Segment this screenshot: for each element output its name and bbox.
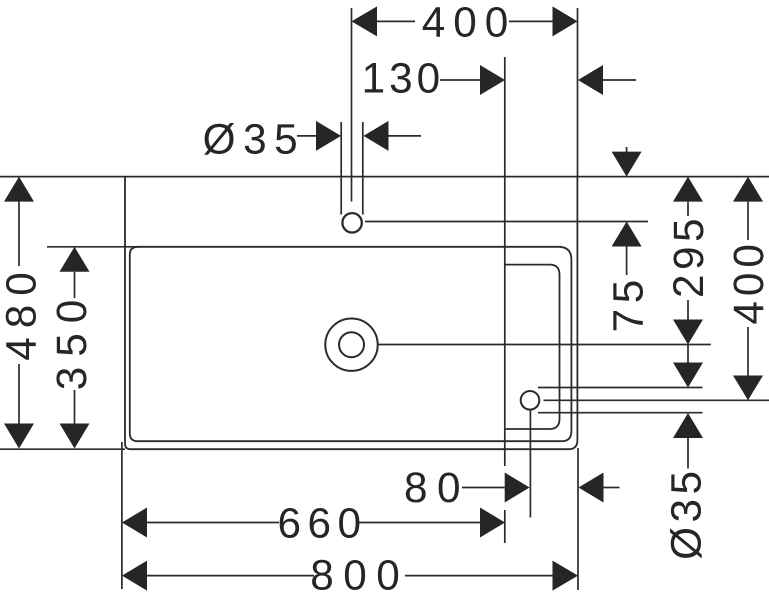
- dim 660: line segments: [147, 522, 279, 524]
- arrow 350 up: [60, 247, 90, 272]
- svg-text:660: 660: [277, 499, 367, 546]
- arrow 295 down: [673, 320, 703, 345]
- arrow Ø35-right down: [673, 363, 703, 388]
- drain outer circle: [325, 319, 377, 371]
- arrow 75 up (below hole line): [612, 222, 642, 247]
- svg-text:400: 400: [422, 0, 517, 46]
- bowl inner outline: [130, 247, 572, 441]
- dim 400 right: line segments: [747, 202, 749, 240]
- faucet hole: [342, 213, 361, 232]
- arrow 130 right (points left): [578, 65, 603, 95]
- arrow 800 right: [553, 561, 579, 591]
- arrow 400-right up: [733, 177, 763, 202]
- dim Ø35 right: upper tail: [687, 345, 689, 363]
- shelf outline: [505, 265, 560, 429]
- dim 75: lower tail: [626, 247, 628, 276]
- extension line right edge top: [577, 8, 579, 177]
- extension line left edge bottom: [121, 442, 123, 589]
- svg-text:75: 75: [605, 274, 652, 332]
- drain center extension line: [379, 344, 711, 346]
- dim 295: line segments: [687, 202, 689, 216]
- extension line faucet right tangent: [362, 122, 364, 215]
- dim 800: line segments: [147, 575, 314, 577]
- basin outer outline: [125, 177, 577, 450]
- svg-text:350: 350: [48, 290, 95, 391]
- overflow lower tangent extension line: [538, 412, 703, 414]
- overflow hole circle: [521, 391, 540, 410]
- svg-text:295: 295: [665, 214, 712, 298]
- arrow 400-top right: [553, 6, 578, 36]
- extension line right edge bottom: [577, 448, 579, 590]
- svg-text:Ø35: Ø35: [203, 116, 305, 163]
- basin top edge with extensions: [0, 176, 769, 178]
- dim 80: line segment: [462, 487, 505, 489]
- overflow upper tangent extension line: [538, 387, 703, 389]
- faucet hole center extension line (horizontal): [365, 221, 648, 223]
- svg-text:Ø35: Ø35: [662, 466, 709, 559]
- arrow 295 up: [673, 177, 703, 202]
- dim 130: line segment: [440, 79, 480, 81]
- arrow 660 right: [480, 508, 505, 538]
- dim 75: upper tail: [626, 147, 628, 152]
- dim 130: right tail: [603, 79, 636, 81]
- arrow Ø35-top left (points right): [316, 121, 341, 151]
- svg-text:130: 130: [362, 55, 445, 102]
- bowl top edge left extension: [47, 246, 141, 248]
- svg-text:480: 480: [0, 263, 44, 361]
- extension line faucet left tangent: [340, 122, 342, 215]
- arrow 400-right down: [733, 376, 763, 401]
- extension line x505 upper: [504, 57, 506, 466]
- arrow 800 left: [122, 561, 147, 591]
- arrow 80 left (points right): [505, 473, 530, 503]
- dim 80: right tail: [604, 487, 620, 489]
- arrow 350 down: [60, 424, 90, 449]
- arrow 80 right (points left): [579, 473, 604, 503]
- basin bottom edge left extension: [0, 448, 125, 450]
- extension line overflow vertical: [529, 410, 531, 517]
- overflow center extension line: [544, 399, 769, 401]
- dim Ø35 right: lower tail: [687, 438, 689, 469]
- dim 400 top: line segments: [377, 20, 415, 22]
- dim 480: line segments: [18, 202, 20, 267]
- arrow 75 down (above top edge): [612, 152, 642, 177]
- arrow 400-top left: [352, 6, 378, 36]
- extension line x505 lower: [504, 510, 506, 543]
- arrow 480 up: [4, 177, 34, 202]
- arrow 480 down: [4, 424, 34, 449]
- dim 350: line segments: [74, 272, 76, 298]
- arrow Ø35-top right (points left): [364, 121, 389, 151]
- svg-text:800: 800: [310, 552, 409, 599]
- svg-text:400: 400: [725, 239, 769, 325]
- arrow 660 left: [122, 508, 147, 538]
- dim Ø35 top: line segment: [297, 135, 316, 137]
- arrow 130 left (points right): [480, 65, 505, 95]
- svg-text:80: 80: [404, 464, 470, 511]
- arrow Ø35-right up: [673, 413, 703, 438]
- extension line faucet center vertical: [351, 8, 353, 202]
- drain inner circle: [339, 332, 364, 357]
- dim Ø35 top: right tail: [389, 135, 422, 137]
